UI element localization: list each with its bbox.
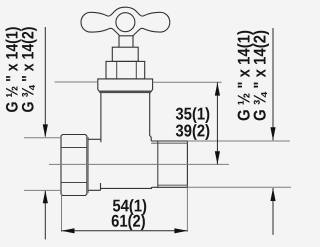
right thread extension line top [187,140,290,142]
stem [119,35,133,47]
bonnet body walls [100,93,102,142]
left thread label G 3/4 x 14(2) [21,27,36,112]
height dim arrow down [215,151,220,164]
height value 39(2) [176,124,210,140]
union nut (left, female thread) [61,135,87,196]
male end thread relief lines [151,143,187,185]
length dim arrow right [174,228,187,233]
left thread dimension line lower segment [44,191,46,240]
male threaded end (right) [151,141,187,187]
bonnet hex nut [106,61,145,79]
length value 54(1) [113,199,146,215]
length value 61(2) [112,214,145,230]
height value 35(1) [176,107,210,123]
right thread label G 1/2 x 14(1) [237,31,253,121]
length dimension line 54/61 [62,230,188,232]
height extension line [153,81,222,83]
body bottom [101,187,152,188]
right thread dimension line upper segment [272,28,274,140]
centerline [49,163,229,165]
tail ring between nut and body [88,139,101,190]
height dim arrow up [215,83,220,96]
right thread extension line bottom [187,186,291,188]
male end collar line [157,141,159,187]
length extension line left [61,191,63,232]
right dim arrow up [270,188,275,201]
left thread extension line bottom [24,189,62,191]
left thread label G 1/2 x 14(1) [6,27,21,112]
height dimension line 35/39 [216,82,218,164]
handle (cross handle outline) [81,7,170,36]
union nut face line [87,137,89,193]
left thread dimension line upper segment [44,27,46,137]
right thread dimension line lower segment [272,188,274,235]
handle hub circle [116,13,135,32]
left dim arrow up [43,190,48,203]
length dim arrow left [62,228,75,233]
right thread label G 3/4 x 14(2) [253,31,269,121]
hex facet lines [117,61,137,79]
right dim arrow down [270,127,275,140]
flange top extension line left [55,81,98,83]
body top flange [98,79,153,93]
union nut hex facet lines [61,148,87,183]
length extension line right [186,187,188,232]
flange bottom thick edge [100,91,151,94]
left thread extension line top [24,137,61,139]
left dim arrow down [43,124,48,137]
packing nut [112,47,138,61]
